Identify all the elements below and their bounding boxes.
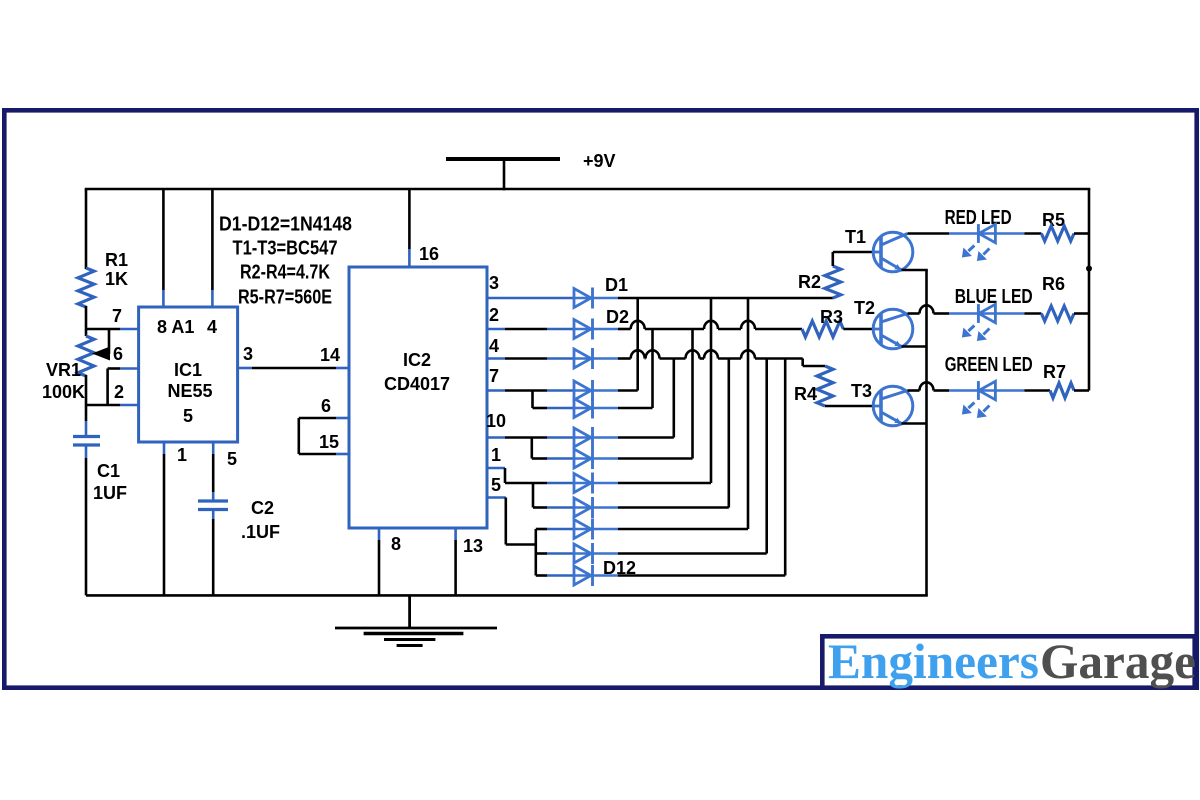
+9V supply bar <box>446 157 560 161</box>
svg-text:3: 3 <box>243 344 253 364</box>
wire T1 collector to red LED <box>908 232 950 235</box>
svg-text:4: 4 <box>489 336 499 356</box>
wire blue bus D2 row <box>618 328 631 331</box>
svg-text:5: 5 <box>491 475 501 495</box>
svg-text:IC1: IC1 <box>174 360 202 380</box>
wire D6 to green bus <box>618 436 674 439</box>
svg-text:D1: D1 <box>605 275 628 295</box>
resistor R4 <box>817 366 833 406</box>
svg-text:6: 6 <box>113 344 123 364</box>
wire D3 cathode stub <box>593 357 618 360</box>
wire IC2 pin6-pin15 jumper <box>336 417 349 420</box>
LED blue <box>977 312 996 315</box>
wire R3 to T2 base <box>843 328 873 331</box>
resistor R3 <box>802 321 843 337</box>
wire VR1 wiper to pin7 net <box>108 329 111 354</box>
wire IC1 pin5 to C2 <box>212 442 215 454</box>
wire D4 to red bus <box>618 389 638 392</box>
wire pin10 to D6 anode <box>487 436 505 439</box>
wire D8 to red bus <box>618 482 711 485</box>
svg-text:8: 8 <box>391 534 401 554</box>
wire right rail <box>1088 189 1091 391</box>
diode D12 <box>574 574 593 577</box>
wire IC2 pin13 to ground rail <box>454 528 457 540</box>
svg-text:R2: R2 <box>798 272 821 292</box>
wire D7 to blue bus <box>618 457 693 460</box>
wire left rail upper <box>85 189 88 269</box>
svg-text:6: 6 <box>321 396 331 416</box>
wire D11 cathode stub <box>593 552 618 555</box>
diode D10 <box>574 528 593 531</box>
wire IC1 pin8 to rail <box>162 189 165 290</box>
svg-text:7: 7 <box>112 306 122 326</box>
wire trunk to D12 anode <box>536 574 547 577</box>
diode D3 <box>574 357 593 360</box>
op IC1 NE555 box <box>139 307 238 442</box>
svg-text:1: 1 <box>177 445 187 465</box>
svg-text:1: 1 <box>491 445 501 465</box>
svg-text:16: 16 <box>419 244 439 264</box>
diode D11 <box>574 552 593 555</box>
wire rail VR1 to C1 <box>85 375 88 421</box>
diode D6 <box>574 436 593 439</box>
LED red <box>977 232 996 235</box>
svg-text:R5: R5 <box>1042 210 1065 230</box>
wire D9 cathode stub <box>593 506 618 509</box>
svg-text:15: 15 <box>319 432 339 452</box>
svg-text:R2-R4=4.7K: R2-R4=4.7K <box>240 261 330 284</box>
resistor R2 <box>825 266 841 298</box>
potentiometer VR1 <box>78 336 94 376</box>
resistor R1 <box>78 268 94 307</box>
svg-text:T3: T3 <box>851 381 872 401</box>
transistor T3 <box>873 386 913 426</box>
LED green <box>977 389 996 392</box>
svg-text:VR1: VR1 <box>46 360 81 380</box>
svg-text:CD4017: CD4017 <box>384 374 450 394</box>
capacitor C2 <box>198 499 228 502</box>
border frame <box>4 110 1196 687</box>
op IC2 CD4017 box <box>349 267 487 528</box>
wire D12 cathode stub <box>593 574 618 577</box>
wire T2 emitter <box>902 345 927 348</box>
diode D7 <box>574 457 593 460</box>
svg-text:T1: T1 <box>845 227 866 247</box>
resistor R7 <box>1050 383 1074 398</box>
wire T3 collector to green LED <box>908 389 920 392</box>
diode D5 <box>574 407 593 410</box>
wire pin2 to D2 anode <box>487 328 505 331</box>
svg-text:13: 13 <box>463 536 483 556</box>
transistor T2 <box>873 309 913 349</box>
wire D5 to blue bus <box>618 407 653 410</box>
wire green bus D3 row <box>618 357 631 360</box>
wire pin6-pin2 bracket <box>106 369 109 406</box>
wire T3 emitter <box>902 422 927 425</box>
wire pin4 to D3 anode <box>487 357 505 360</box>
svg-text:R4: R4 <box>794 384 817 404</box>
wire D4 cathode stub <box>593 389 618 392</box>
svg-text:3: 3 <box>489 273 499 293</box>
svg-text:D1-D12=1N4148: D1-D12=1N4148 <box>219 213 352 236</box>
wire pin5 to diode trunk <box>487 496 506 499</box>
wire pin1 branch to D9 <box>532 483 535 508</box>
wire IC2 pin8 to ground rail <box>378 528 381 540</box>
VR1 wiper arrow <box>92 347 110 361</box>
wire R7 to right rail <box>1074 389 1089 392</box>
wire D5 cathode stub <box>593 407 618 410</box>
svg-text:5: 5 <box>183 406 193 426</box>
wire blue LED to R6 <box>997 312 1025 315</box>
diode D1 <box>574 297 593 300</box>
wire pin6 <box>108 367 120 370</box>
wire red LED to R5 <box>997 232 1025 235</box>
wire green LED to R7 <box>997 389 1025 392</box>
wire D6 cathode stub <box>593 436 618 439</box>
svg-text:Garage: Garage <box>1040 633 1196 689</box>
resistor R5 <box>1041 226 1074 241</box>
wire R5 to right rail <box>1074 232 1090 235</box>
wire D1 cathode stub <box>593 297 618 300</box>
svg-text:100K: 100K <box>42 382 85 402</box>
wire pin1 to D8 anode <box>487 467 505 470</box>
wire pin10 branch to D7 <box>530 438 533 459</box>
wire trunk to D11 anode <box>536 552 547 555</box>
wire T2 collector to blue LED <box>908 312 920 315</box>
svg-text:5: 5 <box>227 449 237 469</box>
svg-text:C1: C1 <box>97 461 120 481</box>
wire green bus to R4 <box>801 359 804 367</box>
svg-text:GREEN LED: GREEN LED <box>945 354 1033 376</box>
wire pin3 to D1 anode <box>487 297 574 300</box>
wire emitter bus <box>925 270 928 595</box>
wire rail R1 to VR1 <box>85 306 88 336</box>
wire R4 to T3 base <box>825 405 874 408</box>
wire trunk to D10 anode <box>536 528 547 531</box>
wire D12 to green bus <box>618 574 785 577</box>
diode D9 <box>574 506 593 509</box>
diode D2 <box>574 328 593 331</box>
wire IC1 pin3 to IC2 pin14 <box>238 367 252 370</box>
wire pin7 to D4 anode <box>487 389 505 392</box>
transistor T1 <box>873 232 913 272</box>
svg-text:D2: D2 <box>606 307 629 327</box>
wire red bus D1 row <box>618 297 833 300</box>
svg-text:R1: R1 <box>105 250 128 270</box>
wire pin7 branch to D5 <box>531 391 534 409</box>
svg-text:T2: T2 <box>854 298 875 318</box>
wire IC2 pin16 to rail <box>408 189 411 249</box>
wire trunk vertical D10-D12 <box>534 529 537 576</box>
wire R6 to right rail <box>1074 312 1089 315</box>
svg-text:2: 2 <box>114 382 124 402</box>
wire C2 to ground rail <box>212 511 215 520</box>
diode D4 <box>574 389 593 392</box>
wire bottom ground rail <box>86 594 928 597</box>
logo box <box>822 636 1194 687</box>
wire C1 to ground rail <box>85 446 88 458</box>
wire pin7 <box>86 328 120 331</box>
svg-text:8 A1: 8 A1 <box>157 317 194 337</box>
svg-text:C2: C2 <box>251 498 274 518</box>
svg-text:10: 10 <box>486 411 506 431</box>
svg-text:7: 7 <box>489 366 499 386</box>
svg-text:R6: R6 <box>1042 274 1065 294</box>
wire D8 cathode stub <box>593 482 618 485</box>
svg-text:14: 14 <box>320 345 340 365</box>
capacitor C1 <box>73 435 100 438</box>
svg-text:1UF: 1UF <box>93 483 127 503</box>
svg-text:+9V: +9V <box>583 151 616 171</box>
svg-text:1K: 1K <box>105 269 128 289</box>
wire IC1 pin1 to ground rail <box>163 442 166 454</box>
svg-text:2: 2 <box>489 305 499 325</box>
wire R2 to T1 base <box>831 252 834 266</box>
wire T1 emitter <box>902 269 928 272</box>
wire D11 to green bus <box>618 552 767 555</box>
wire D7 cathode stub <box>593 457 618 460</box>
wire D10 cathode stub <box>593 528 618 531</box>
svg-text:IC2: IC2 <box>403 350 431 370</box>
svg-text:NE55: NE55 <box>167 381 212 401</box>
wire top +9V rail <box>85 188 1091 191</box>
svg-text:R3: R3 <box>820 307 843 327</box>
wire +9V stub <box>503 159 506 190</box>
svg-text:.1UF: .1UF <box>241 522 280 542</box>
wire D9 to green bus <box>618 506 729 509</box>
svg-text:Engineers: Engineers <box>828 633 1039 689</box>
diode D8 <box>574 482 593 485</box>
svg-text:R7: R7 <box>1043 362 1066 382</box>
wire IC1 pin4 to rail <box>211 189 214 290</box>
svg-text:T1-T3=BC547: T1-T3=BC547 <box>233 237 338 260</box>
resistor R6 <box>1041 306 1074 321</box>
junction dot on right rail <box>1086 266 1092 272</box>
wire D10 to red bus <box>618 528 748 531</box>
wire D2 cathode stub <box>593 328 618 331</box>
svg-text:4: 4 <box>207 317 217 337</box>
svg-text:R5-R7=560E: R5-R7=560E <box>238 286 332 309</box>
ground symbol <box>408 595 411 628</box>
wire pin2 <box>86 404 120 407</box>
